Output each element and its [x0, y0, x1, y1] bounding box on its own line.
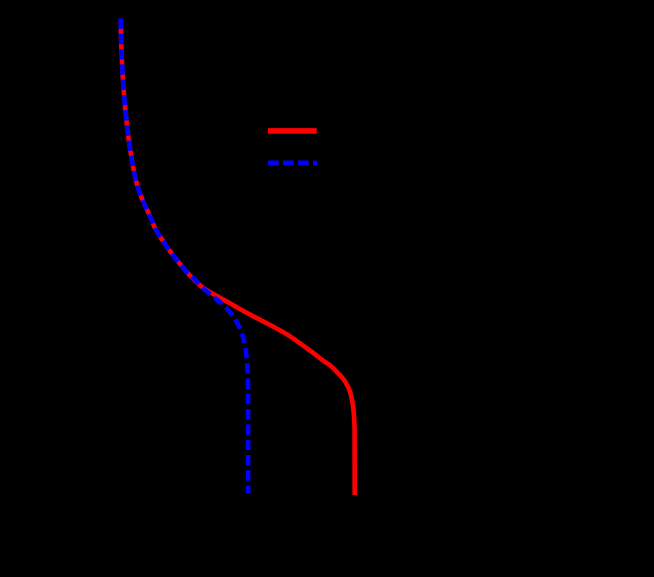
- blue dashed profile curve: [121, 19, 249, 494]
- legend red solid line sample: [268, 128, 317, 134]
- red solid profile curve: [121, 19, 355, 496]
- legend blue dashed line sample: [268, 160, 317, 165]
